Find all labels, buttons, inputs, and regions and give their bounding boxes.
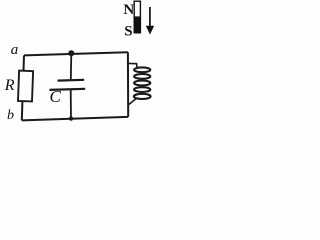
capacitor C bottom plate [50, 89, 86, 90]
inductor coil L: bottom lead [129, 98, 137, 104]
wire: bottom wire [22, 117, 128, 121]
magnet bar S pole (filled black) [134, 16, 141, 33]
capacitor C top plate [58, 79, 85, 82]
wire: left wire (a to b) [22, 55, 24, 120]
svg-text:b: b [7, 108, 14, 123]
inductor coil L: loop 3 [134, 81, 150, 86]
wire: capacitor branch lower [70, 89, 72, 119]
wire: top wire a-junction-topright [24, 52, 128, 55]
wire: capacitor branch upper [70, 53, 73, 80]
wire: right wire [127, 52, 129, 117]
node dot: bottom junction [69, 116, 73, 120]
resistor R (box on left wire) [18, 71, 33, 102]
arrow head [146, 26, 154, 35]
inductor coil L: loop 1 [134, 67, 150, 72]
svg-text:N: N [123, 2, 134, 18]
arrow (magnet falling, downward) shaft [149, 7, 151, 28]
inductor coil L: loop 2 [134, 74, 150, 79]
svg-text:R: R [4, 77, 15, 94]
inductor coil L: loop 4 [134, 87, 150, 92]
node dot: top junction [68, 50, 74, 56]
inductor coil L: loop 5 [134, 94, 151, 99]
svg-text:C: C [50, 87, 62, 106]
magnet bar outline (N pole, white) [134, 1, 140, 33]
svg-text:S: S [124, 24, 132, 40]
svg-text:a: a [11, 42, 18, 58]
inductor coil L: top lead [128, 63, 137, 67]
